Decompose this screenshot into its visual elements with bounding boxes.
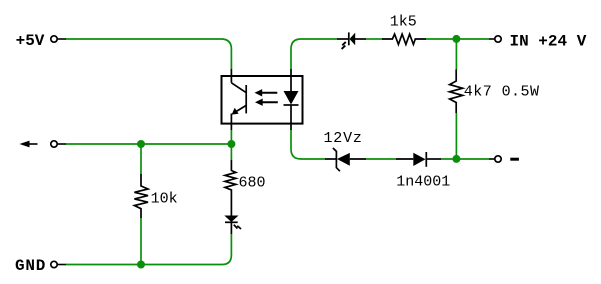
svg-text:12Vz: 12Vz xyxy=(324,130,363,147)
svg-text:1n4001: 1n4001 xyxy=(396,174,450,191)
svg-text:680: 680 xyxy=(239,175,266,192)
svg-text:1k5: 1k5 xyxy=(390,14,417,31)
svg-text:GND: GND xyxy=(15,257,46,275)
svg-text:IN +24 V: IN +24 V xyxy=(510,32,587,50)
svg-text:4k7 0.5W: 4k7 0.5W xyxy=(464,84,540,101)
svg-text:+5V: +5V xyxy=(16,32,45,50)
svg-text:10k: 10k xyxy=(151,191,178,208)
